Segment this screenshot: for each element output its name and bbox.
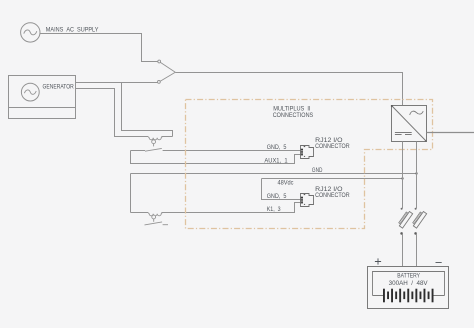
svg-text:GENERATOR: GENERATOR: [43, 83, 75, 90]
RJ12 connector J2: [301, 194, 314, 207]
wire GND net: [131, 173, 417, 175]
ac source G2 (generator): [21, 83, 39, 101]
svg-text:GND, 5: GND, 5: [267, 193, 287, 200]
wire generator branch down to CT1 (inner): [122, 83, 173, 137]
svg-text:MAINS AC SUPPLY: MAINS AC SUPPLY: [46, 27, 99, 34]
transfer switch S1 lower contact: [158, 72, 176, 83]
wire switch common to inverter AC-in: [175, 73, 402, 106]
generator box: [9, 76, 76, 119]
svg-text:K1, 3: K1, 3: [267, 206, 281, 213]
current sensor CT2: [148, 213, 162, 222]
svg-text:CONNECTIONS: CONNECTIONS: [273, 112, 314, 119]
fuse F2: [411, 208, 426, 235]
RJ12 connector J1: [301, 146, 314, 159]
svg-text:CONNECTOR: CONNECTOR: [315, 143, 350, 150]
inverter AC symbol: [410, 111, 424, 115]
wire K1 net: [131, 203, 301, 213]
wire DC minus inverter to fuse F2: [416, 142, 418, 209]
K1 relay blade: [145, 222, 169, 225]
minus terminal mark: [436, 262, 442, 264]
wire branch to GND,5 of J2: [262, 179, 301, 200]
current sensor CT1: [148, 137, 162, 147]
svg-text:CONNECTOR: CONNECTOR: [315, 192, 350, 199]
wire 48Vdc net: [262, 178, 403, 180]
svg-text:AUX1, 1: AUX1, 1: [264, 157, 288, 164]
plus terminal mark: [375, 258, 381, 264]
svg-text:BATTERY: BATTERY: [397, 273, 420, 280]
wire fuse F2 to battery minus: [416, 234, 418, 272]
svg-text:GND, 5: GND, 5: [267, 144, 287, 151]
wire GND,5 to RJ12 connector J1: [163, 150, 301, 152]
svg-text:300AH / 48V: 300AH / 48V: [389, 280, 429, 287]
wire DC plus inverter to fuse F1: [402, 142, 404, 209]
inverter DC symbol: [395, 133, 412, 135]
wire fuse F1 to battery plus: [402, 234, 404, 272]
wire generator down to CT1 (outer): [76, 89, 173, 137]
wire AC out: [427, 132, 474, 134]
wire generator to switch lower contact: [76, 82, 158, 84]
battery plates: [383, 289, 434, 303]
wire mains to transfer switch: [40, 34, 158, 62]
wire left bus vertical: [130, 174, 132, 213]
aux switch blade: [131, 148, 162, 151]
battery BT1 box: [368, 267, 449, 309]
transfer switch S1 upper contact: [158, 60, 176, 72]
junction dot GND x DC minus: [415, 172, 417, 174]
multiplus II connections dashed enclosure: [186, 100, 433, 229]
ac source G1 (mains): [21, 23, 40, 42]
fuse F1: [397, 208, 412, 235]
inverter diagonal corner dots: [391, 105, 393, 107]
inverter U1 box: [392, 106, 427, 142]
wire AUX1,1 to RJ12 connector J1: [131, 151, 301, 164]
junction dot 48Vdc x DC plus: [401, 177, 403, 179]
svg-text:48Vdc: 48Vdc: [278, 179, 294, 186]
